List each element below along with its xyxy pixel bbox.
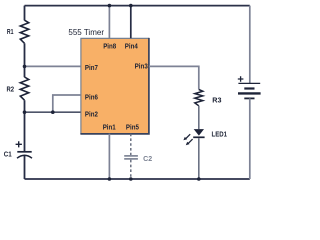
svg-text:Pin8: Pin8: [103, 42, 116, 51]
svg-text:LED1: LED1: [212, 132, 228, 139]
svg-text:Pin2: Pin2: [85, 109, 98, 118]
junction node pin4 top: [129, 4, 133, 8]
junction node pin8 top: [108, 4, 112, 8]
battery B1 plus sign: [238, 76, 244, 82]
wire right rail upper: [249, 6, 251, 84]
wire left rail R1 to node: [24, 43, 26, 77]
battery B1: [238, 82, 260, 84]
wire pin1 to bottom bus: [108, 134, 110, 179]
wire right rail lower: [249, 98, 251, 179]
junction node R1 R2 pin7: [23, 65, 27, 69]
svg-text:Pin4: Pin4: [125, 42, 138, 51]
LED1 arrow 1: [186, 134, 191, 139]
LED1 cathode bar: [193, 136, 204, 138]
wire C1 to ground bus: [24, 156, 26, 179]
wire bottom bus: [25, 178, 250, 180]
svg-text:C1: C1: [4, 151, 12, 158]
resistor R1: [20, 20, 28, 43]
junction node pin1 bottom: [108, 177, 112, 181]
junction node R2 C1 pin2: [23, 110, 27, 114]
capacitor C1 plus sign: [16, 141, 22, 147]
junction node C2 bottom: [129, 177, 133, 181]
junction node LED bottom: [197, 177, 201, 181]
svg-text:Pin7: Pin7: [85, 63, 98, 72]
wire top bus VCC: [25, 5, 250, 7]
svg-text:Pin3: Pin3: [135, 61, 148, 70]
svg-text:555 Timer: 555 Timer: [68, 28, 104, 37]
IC U1 box border left top: [81, 38, 149, 133]
junction node pin6 pin2: [51, 110, 55, 114]
IC U1 box border right bottom shadow: [80, 38, 148, 134]
LED1 arrow 2: [188, 139, 193, 144]
wire left rail upper: [24, 6, 26, 21]
wire pin6: [53, 95, 81, 112]
capacitor C1: [17, 151, 31, 153]
svg-text:R2: R2: [7, 87, 15, 94]
wire pin5 to C2 dashed: [130, 134, 132, 155]
IC U1 555 timer box: [81, 38, 149, 133]
resistor R3: [195, 90, 203, 106]
wire C2 to bottom bus dashed: [130, 160, 132, 179]
resistor R2: [20, 77, 28, 100]
svg-text:Pin6: Pin6: [85, 92, 98, 101]
wire left rail R2 to C1: [24, 100, 26, 151]
wire pin7 to left rail: [25, 65, 81, 67]
svg-text:Pin5: Pin5: [126, 123, 139, 132]
LED1 diode triangle: [194, 129, 204, 136]
capacitor C2: [124, 155, 138, 157]
wire R3 to LED1: [198, 106, 200, 129]
wire pin8 to top bus: [108, 6, 110, 39]
wire LED1 to bottom bus: [198, 138, 200, 179]
svg-text:R3: R3: [212, 97, 221, 104]
wire pin3 to R3: [149, 66, 199, 89]
svg-text:Pin1: Pin1: [103, 123, 116, 132]
svg-text:C2: C2: [143, 156, 152, 163]
svg-text:R1: R1: [7, 29, 14, 36]
wire pin4 to top bus: [130, 6, 132, 39]
wire pin2 to left rail: [25, 111, 81, 113]
